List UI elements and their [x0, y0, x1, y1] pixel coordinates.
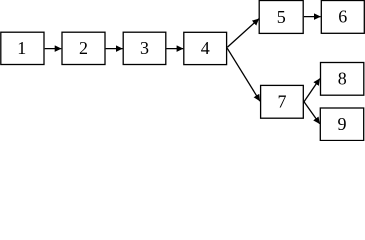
node 1	[1, 32, 44, 64]
node 5	[259, 1, 303, 34]
arrow 4->5	[227, 19, 259, 48]
node 6	[321, 1, 364, 34]
svg-text:8: 8	[338, 69, 347, 89]
svg-text:3: 3	[140, 38, 149, 58]
arrow 7->9	[304, 102, 320, 124]
svg-text:6: 6	[338, 7, 347, 27]
svg-text:4: 4	[201, 38, 210, 58]
arrow 3->4	[166, 48, 183, 50]
node 7	[261, 85, 304, 118]
node 3	[123, 32, 166, 64]
svg-text:7: 7	[278, 92, 287, 112]
arrow 1->2	[45, 48, 62, 50]
node 9	[320, 108, 363, 141]
arrow 7->8	[304, 79, 320, 102]
arrow 2->3	[106, 48, 123, 50]
node 8	[321, 63, 364, 96]
node 2	[62, 32, 105, 64]
arrow 5->6	[304, 16, 321, 18]
node 4	[184, 32, 227, 64]
svg-text:2: 2	[79, 38, 88, 58]
arrow 4->7	[227, 48, 260, 101]
svg-text:9: 9	[338, 114, 347, 134]
svg-text:1: 1	[17, 38, 26, 58]
svg-text:5: 5	[277, 7, 286, 27]
